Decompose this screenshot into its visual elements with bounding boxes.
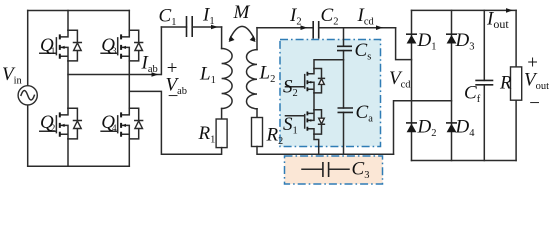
transistor Q2: [40, 108, 82, 139]
svg-text:Vin: Vin: [2, 64, 23, 87]
wire S1 source to bottom: [314, 134, 319, 154]
svg-text:I2: I2: [289, 5, 302, 28]
svg-text:D1: D1: [417, 30, 437, 53]
svg-text:D2: D2: [417, 117, 437, 140]
capacitor Cf: [483, 10, 485, 160]
svg-text:Iout: Iout: [486, 9, 509, 32]
transistor S1 (mirrored): [286, 110, 325, 134]
svg-text:D3: D3: [455, 30, 475, 53]
svg-text:C2: C2: [321, 5, 339, 28]
wire bridge output node a with Iab arrow: [68, 74, 161, 76]
wire node d riser: [394, 101, 452, 154]
svg-text:Q2: Q2: [40, 112, 55, 133]
diode D3: [446, 34, 457, 43]
C3 orange dashed box: [285, 156, 383, 184]
wire SCC switch branch top: [314, 60, 344, 69]
wire C2 to rectifier with Icd arrow: [319, 27, 396, 29]
wire C1 to L1 with I1 arrow: [192, 26, 221, 28]
svg-text:Vcd: Vcd: [389, 68, 411, 91]
wire rectifier bottom rail: [412, 160, 517, 162]
AC source Vin: [18, 86, 37, 105]
svg-text:Iab: Iab: [141, 53, 158, 76]
svg-text:Q1: Q1: [40, 35, 55, 56]
svg-text:Q4: Q4: [101, 112, 117, 133]
transistor Q3: [101, 30, 143, 61]
svg-text:L2: L2: [259, 63, 276, 86]
wire between S2 and S1: [313, 93, 315, 110]
transistor Q4: [101, 108, 143, 139]
mutual inductance M arrow: [230, 26, 255, 39]
svg-text:L1: L1: [199, 64, 216, 87]
capacitor C2: [313, 21, 319, 39]
wire primary return: [129, 91, 221, 154]
resistor R load: [515, 10, 517, 160]
svg-text:C1: C1: [159, 6, 177, 29]
svg-text:Q3: Q3: [101, 35, 117, 56]
transistor Q1: [40, 30, 82, 61]
wire secondary bottom: [257, 147, 394, 155]
wire to C1: [161, 26, 186, 28]
wire left source branch: [27, 11, 29, 167]
svg-text:R1: R1: [198, 123, 216, 146]
wire rectifier right leg: [451, 10, 453, 160]
svg-text:D4: D4: [455, 117, 476, 140]
resistor R2: [252, 118, 263, 147]
svg-text:R: R: [499, 73, 512, 94]
transistor S2: [286, 69, 325, 93]
wire L2 top to C2 with I2 arrow: [257, 27, 313, 29]
diode D2: [406, 123, 417, 132]
svg-text:Cf: Cf: [464, 83, 481, 106]
diode D1: [406, 34, 417, 43]
wire rectifier top rail with Iout arrow: [412, 9, 517, 11]
svg-text:I1: I1: [202, 5, 215, 28]
capacitor Ca: [338, 108, 354, 112]
capacitor C1: [187, 16, 193, 37]
SCC blue dashed box: [280, 40, 381, 147]
svg-text:M: M: [233, 2, 251, 23]
wire top rail primary: [28, 10, 130, 12]
svg-text:−: −: [528, 93, 541, 114]
wire left bridge leg: [67, 11, 69, 167]
wire SCC main vertical: [343, 28, 345, 155]
inductor L1: [221, 27, 223, 49]
capacitor C3 in orange box: [302, 168, 349, 170]
svg-text:−: −: [167, 86, 180, 107]
inductor L2: [256, 28, 258, 50]
resistor R1: [216, 119, 227, 148]
wire down to node c: [396, 28, 412, 60]
capacitor Cs: [337, 46, 352, 50]
wire rectifier left leg: [411, 10, 413, 160]
wire up from node a: [160, 27, 162, 75]
diode D4: [446, 123, 457, 132]
wire bottom rail primary: [28, 165, 130, 167]
svg-text:Icd: Icd: [357, 5, 375, 28]
wire right bridge leg: [128, 11, 130, 167]
